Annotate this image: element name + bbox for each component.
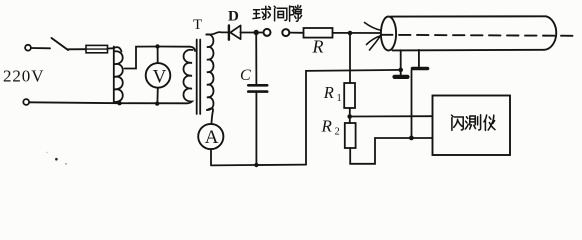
球 — [253, 10, 260, 19]
ground bar 1 — [395, 75, 408, 79]
wire bottom rail — [29, 102, 186, 103]
junction capacitor bottom — [254, 163, 258, 167]
cable right cap — [544, 16, 556, 50]
wire divider to instrument input — [350, 115, 433, 117]
resistor R2 — [345, 123, 356, 148]
svg-text:V: V — [153, 67, 167, 88]
wire R1 to R2 — [349, 108, 351, 123]
R1 feed wire — [349, 33, 351, 83]
闪 — [452, 115, 464, 130]
junction sheath-return — [398, 68, 403, 73]
transformer T secondary coil — [206, 34, 213, 110]
wire — [31, 47, 50, 49]
svg-text:220V: 220V — [3, 67, 44, 86]
ground bar 2 — [413, 67, 428, 71]
secondary top lead — [206, 32, 228, 34]
cable body — [391, 16, 546, 50]
voltmeter V — [146, 63, 171, 88]
junction V top — [155, 44, 159, 48]
svg-text:T: T — [193, 17, 202, 33]
junction ground-instrument node — [409, 136, 414, 141]
cable sheath drop 1 — [400, 50, 402, 75]
ammeter A — [198, 124, 223, 149]
svg-text:R: R — [323, 83, 334, 102]
return riser wire — [306, 70, 401, 165]
variac tap wire — [125, 47, 158, 69]
sphere gap ball 2 — [282, 29, 289, 36]
label R1 — [323, 83, 342, 104]
ink speck faint — [65, 163, 67, 165]
label 球间隙 — [253, 5, 302, 21]
sphere gap ball 1 — [264, 29, 271, 36]
svg-text:C: C — [240, 67, 251, 84]
cable dashed centerline — [381, 35, 575, 36]
junction HV node — [254, 30, 259, 35]
transformer T primary coil — [183, 50, 192, 104]
cable end whiskers — [365, 23, 387, 51]
junction variac bottom — [117, 101, 121, 105]
仪 — [484, 115, 487, 130]
cable left ellipse — [381, 17, 396, 51]
间 — [274, 6, 287, 21]
instrument box 闪测仪 — [433, 96, 511, 156]
resistor R — [304, 28, 333, 38]
capacitor C stem top — [255, 33, 257, 85]
junction divider node — [347, 114, 352, 119]
label 闪测仪 — [452, 115, 495, 131]
ink speck faint — [46, 152, 47, 153]
secondary bottom lead to ammeter — [207, 108, 213, 124]
测 — [465, 117, 468, 129]
ammeter bottom lead — [210, 149, 212, 165]
wire R2 bottom step — [350, 138, 432, 164]
svg-text:R: R — [321, 116, 333, 135]
隙 — [290, 6, 294, 21]
wire — [108, 47, 114, 49]
switch S — [52, 38, 69, 50]
svg-text:A: A — [205, 127, 219, 148]
svg-text:R: R — [312, 36, 324, 56]
wire top rail to transformer primary — [158, 47, 196, 52]
wire ground to instrument — [411, 70, 413, 138]
junction V bottom — [155, 101, 159, 105]
svg-text:D: D — [228, 9, 239, 25]
wire gap to R — [290, 32, 304, 34]
ink speck — [55, 158, 58, 161]
junction R1 top node — [348, 31, 353, 36]
wire diode to gap — [240, 32, 263, 34]
svg-text:1: 1 — [337, 93, 342, 104]
voltmeter V leads — [156, 47, 158, 104]
autotransformer (variac) coil — [114, 47, 123, 103]
bottom return rail — [212, 164, 307, 167]
diode D — [229, 25, 241, 39]
terminal top-left input — [25, 45, 31, 51]
cable sheath drop 2 — [418, 50, 420, 67]
svg-text:2: 2 — [335, 127, 340, 138]
label R2 — [321, 116, 340, 137]
capacitor C — [248, 85, 267, 91]
terminal bottom-left input — [23, 99, 29, 105]
transformer T core — [197, 40, 201, 115]
wire — [68, 48, 86, 50]
fuse FU — [86, 45, 108, 52]
resistor R1 — [344, 83, 355, 108]
capacitor C stem bottom — [255, 93, 257, 165]
wire R to cable — [333, 32, 381, 34]
